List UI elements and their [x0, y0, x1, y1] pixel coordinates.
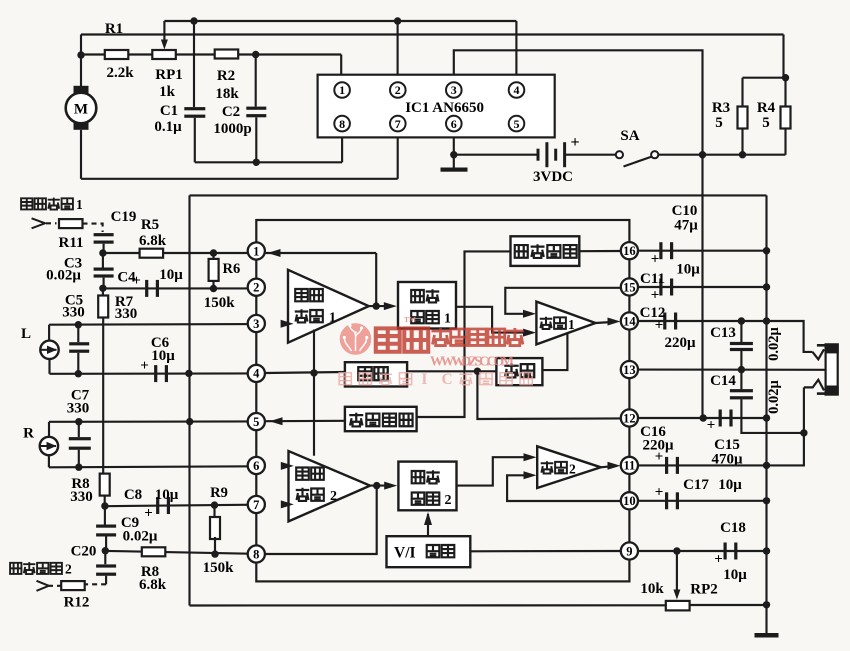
arrow driver2 upper input — [524, 453, 537, 461]
wire preamp2 feedback to pin8 — [265, 486, 377, 554]
wire pin1 drop — [340, 55, 342, 76]
wire pin4 to filter1 — [265, 372, 345, 373]
svg-text:M: M — [74, 102, 88, 118]
svg-text:R6: R6 — [223, 261, 241, 277]
wire pin12 row — [638, 417, 767, 419]
wire driver2 out — [601, 466, 612, 467]
label driver2 text — [541, 461, 576, 476]
watermark dianzishichangwang text — [432, 328, 524, 346]
label preamp1 text — [295, 289, 336, 326]
svg-text:6.8k: 6.8k — [139, 233, 167, 249]
wire refv to base voltage box — [417, 251, 511, 417]
svg-text:+: + — [655, 449, 664, 465]
junction C5 bottom — [75, 370, 82, 377]
svg-text:+: + — [570, 134, 579, 151]
wire to pin12 — [477, 371, 621, 419]
IC1 pin 4 circle — [509, 82, 525, 98]
IC functional block outline — [256, 220, 629, 581]
resistor R2 18k — [215, 50, 239, 59]
svg-text:5: 5 — [762, 115, 770, 131]
wire R7 top lead — [102, 288, 104, 296]
source R circle — [40, 437, 58, 455]
svg-text:C20: C20 — [71, 544, 97, 560]
svg-text:2: 2 — [253, 281, 259, 295]
wire jack lower drop — [803, 387, 805, 433]
junction C2 bottom — [253, 159, 260, 166]
watermark weiku text — [376, 328, 428, 351]
op-amp preamp1 (qianzhi fangda 1) — [288, 270, 369, 343]
junction C9/C20/R8b — [102, 547, 109, 554]
wire L bottom lead — [48, 359, 50, 374]
wire C3 top lead — [102, 253, 104, 268]
switch SA lever — [624, 157, 653, 167]
wire R6 top lead — [212, 253, 214, 259]
junction C3/C4/R7 — [99, 285, 106, 292]
wire C19 bottom lead — [103, 244, 105, 253]
svg-text:+: + — [714, 552, 723, 568]
IC1 pin 2 circle — [390, 82, 406, 98]
op-amp driver2 (qudong 2) — [537, 446, 601, 488]
junction rail pin11 — [763, 462, 770, 469]
capacitor C13 0.02u — [730, 342, 753, 351]
junction C10 out — [763, 247, 770, 254]
capacitor C4 10u — [145, 280, 159, 297]
node pin 9 — [621, 542, 638, 559]
node pin 15 — [621, 278, 638, 295]
battery 3VDC — [537, 142, 567, 167]
node pin 11 — [621, 457, 638, 474]
block base voltage (jizhun dianya) — [345, 407, 417, 431]
node pin 14 — [621, 312, 638, 329]
wire supply vertical x703 — [701, 155, 703, 418]
wire C14 bottom to jack lower — [741, 399, 804, 433]
capacitor C10 47u — [659, 242, 673, 259]
wire battery left — [454, 154, 537, 156]
node pin 13 — [621, 361, 638, 378]
svg-text:14: 14 — [623, 314, 636, 328]
svg-text:C18: C18 — [720, 520, 746, 536]
potentiometer RP2 body — [666, 601, 690, 611]
svg-text:5: 5 — [514, 117, 520, 131]
svg-text:+: + — [651, 288, 660, 304]
block V/I converter (V/I zhuanhuan) — [387, 536, 471, 567]
watermark quanqiu zuida IC caigou wangzhan — [339, 371, 532, 388]
ground (top section) — [441, 168, 468, 172]
wire V/I to volume control 2 — [427, 514, 429, 536]
source R arrow — [40, 442, 57, 450]
wire C13 bottom lead — [740, 351, 742, 370]
label volume control 1 text — [411, 289, 451, 326]
junction motor/R1 — [77, 51, 84, 58]
IC1 pin 7 circle — [390, 116, 406, 132]
potentiometer RP1 body — [152, 50, 176, 59]
arrow driver1 lower input — [523, 329, 536, 337]
svg-text:R11: R11 — [58, 235, 83, 251]
svg-text:I: I — [421, 371, 427, 388]
wire pin13 row to jack — [638, 369, 826, 371]
wire to pin1 — [265, 252, 376, 254]
wire R7-R8 column — [102, 318, 104, 477]
svg-text:1: 1 — [444, 312, 451, 327]
svg-text:10μ: 10μ — [155, 487, 179, 503]
svg-text:2: 2 — [330, 489, 337, 504]
junction C7 bottom — [75, 464, 82, 471]
switch SA contact right — [651, 151, 658, 158]
block volume control 1 (yinliang kongzhi 1) — [398, 282, 456, 329]
wire pin14 row — [638, 320, 767, 322]
label filter2 text — [504, 363, 534, 377]
label V/I converter text — [394, 545, 454, 562]
headphone jack frame tabs — [817, 345, 826, 393]
junction preamp1 out — [373, 302, 380, 309]
block filter1 (lvbo) — [345, 362, 407, 386]
arrow into pin1 — [268, 249, 281, 257]
wire C14 top lead — [740, 370, 742, 390]
wire R3 top to R4 top — [743, 77, 786, 79]
capacitor C17 10u — [665, 492, 679, 509]
svg-text:C11: C11 — [640, 271, 665, 287]
svg-text:4: 4 — [253, 367, 260, 381]
svg-text:2.2k: 2.2k — [106, 65, 134, 81]
junction ground loop/pin4 — [185, 370, 192, 377]
wire R4 bottom lead — [784, 128, 786, 154]
capacitor C9 0.02u — [96, 525, 116, 537]
headphone jack lower contact — [804, 380, 824, 391]
svg-text:RP2: RP2 — [690, 582, 718, 598]
junction tap/pin4 row — [310, 369, 317, 376]
junction rail pin10 — [763, 497, 770, 504]
resistor R5 6.8k — [140, 249, 164, 258]
node pin 3 — [248, 315, 265, 332]
svg-text:SA: SA — [620, 128, 639, 144]
wire dashed input1 to C19 — [83, 224, 103, 232]
arrow into preamp1 upper — [281, 320, 294, 328]
wire C2 bottom lead — [255, 117, 257, 162]
svg-text:18k: 18k — [215, 86, 239, 102]
svg-text:47μ: 47μ — [674, 218, 698, 234]
svg-text:2: 2 — [395, 83, 401, 97]
svg-text:3: 3 — [451, 83, 457, 97]
svg-text:C12: C12 — [640, 305, 666, 321]
label input signal 2 (shouru xinhao 2) — [10, 562, 72, 577]
block filter2 (lvbo) — [496, 358, 542, 385]
wire pin10 row — [638, 500, 767, 502]
wire RP2 wiper — [676, 551, 678, 594]
svg-text:8: 8 — [253, 547, 259, 561]
label input signal 1 (shouru xinhao 1) — [21, 197, 83, 212]
wire to motor — [80, 55, 82, 92]
wire V/I to pin9 — [470, 550, 621, 552]
svg-text:R3: R3 — [712, 100, 730, 116]
svg-text:+: + — [655, 485, 664, 501]
wire C7 top stub — [78, 422, 80, 437]
svg-text:V/I: V/I — [394, 545, 416, 562]
arrow into preamp2 upper — [281, 462, 294, 470]
svg-text:C1: C1 — [160, 103, 178, 119]
svg-text:6.8k: 6.8k — [139, 577, 167, 593]
svg-text:10μ: 10μ — [718, 477, 742, 493]
svg-text:1000p: 1000p — [213, 121, 251, 137]
resistor R8 6.8k — [142, 547, 166, 556]
wire pin2 drop — [397, 21, 399, 75]
label preamp2 text — [296, 468, 337, 505]
svg-text:C8: C8 — [124, 487, 142, 503]
arrow driver2 to pin11 — [608, 462, 621, 470]
arrow into pin5 — [270, 417, 283, 425]
wire pin4 row — [50, 372, 266, 375]
svg-text:R12: R12 — [64, 595, 90, 611]
junction rail pin12 — [763, 414, 770, 421]
wire pin11 row to jack lower — [767, 433, 804, 466]
junction C13 top — [738, 317, 745, 324]
svg-text:RP1: RP1 — [155, 67, 183, 83]
svg-text:10k: 10k — [640, 581, 664, 597]
svg-text:4: 4 — [514, 83, 520, 97]
wire motor bottom to pin7 — [81, 178, 398, 180]
junction R3 bottom — [739, 151, 746, 158]
block reference voltage (cankao dianya) — [511, 236, 580, 266]
node pin 12 — [621, 409, 638, 426]
wire vol2 to driver2 — [457, 457, 531, 485]
svg-text:12: 12 — [623, 411, 636, 425]
watermark logo circle — [340, 323, 372, 355]
wire C7 bottom stub — [78, 450, 80, 468]
op-amp driver1 (qudong 1) — [536, 302, 595, 345]
capacitor C8 10u — [156, 497, 170, 514]
label volume control 2 text — [412, 470, 452, 508]
wire main row — [81, 53, 341, 55]
junction supply/pin12 — [700, 414, 707, 421]
RP1 wiper arrow — [161, 40, 168, 50]
wire to ground — [453, 155, 455, 168]
svg-text:7: 7 — [253, 498, 259, 512]
wire top feedback line (RP1 wiper to pin4) — [164, 20, 516, 22]
wire C20 bottom stub — [105, 576, 107, 585]
wire pin10 to driver2 — [507, 475, 621, 501]
wire ground rail right — [765, 195, 767, 604]
capacitor C3 0.02u — [94, 268, 114, 278]
node pin 1 — [248, 242, 265, 259]
svg-text:11: 11 — [623, 459, 635, 473]
arrow into volume control 2 bottom — [424, 512, 432, 525]
svg-text:3VDC: 3VDC — [533, 169, 573, 185]
IC1 pin 8 circle — [334, 116, 350, 132]
wire C3 bottom lead — [103, 278, 105, 289]
node pin 5 — [248, 413, 265, 430]
resistor R12 — [61, 581, 84, 590]
arrow into volume control 2 — [384, 482, 397, 490]
svg-text:7: 7 — [395, 117, 401, 131]
svg-text:2: 2 — [65, 562, 72, 577]
wire R top lead — [48, 422, 50, 437]
svg-text:1k: 1k — [159, 84, 176, 100]
wire R bottom lead — [48, 455, 50, 467]
label base voltage text — [349, 413, 412, 427]
resistor R8 330 — [100, 474, 110, 496]
wire motor bottom — [80, 130, 82, 179]
capacitor C20 — [96, 564, 116, 575]
svg-text:150k: 150k — [204, 295, 236, 311]
svg-text:6: 6 — [253, 459, 259, 473]
junction C1 top — [190, 17, 197, 24]
junction filter row — [474, 368, 481, 375]
wire C1 bottom lead — [194, 118, 196, 163]
junction C11 out — [763, 283, 770, 290]
junction pin2 wire — [394, 17, 401, 24]
node pin 8 — [248, 545, 265, 562]
svg-text:1: 1 — [253, 244, 259, 258]
node pin 4 — [248, 365, 265, 382]
wire pin11 row — [638, 464, 767, 466]
IC IC1 AN6650 package — [318, 75, 555, 138]
junction R9 top — [211, 501, 218, 508]
svg-text:9: 9 — [626, 544, 632, 558]
wire pin8 row — [105, 551, 265, 554]
svg-text:R2: R2 — [217, 68, 235, 84]
wire motor top stub — [80, 35, 82, 56]
svg-text:C: C — [442, 371, 453, 388]
svg-text:0.02μ: 0.02μ — [123, 529, 158, 545]
wire outer loop left — [188, 195, 190, 605]
junction R6 top — [210, 249, 217, 256]
svg-text:330: 330 — [70, 489, 93, 505]
junction supply rail — [699, 151, 706, 158]
source L arrow — [41, 346, 58, 354]
wire pin15 row — [638, 286, 767, 288]
capacitor C12 220u — [663, 313, 677, 330]
capacitor C18 10u — [724, 543, 738, 560]
junction R9 bottom — [211, 550, 218, 557]
wire IC1 pin3 to supply — [454, 50, 703, 154]
junction R8/C8/C9 — [101, 502, 108, 509]
svg-text:R4: R4 — [757, 100, 776, 116]
svg-text:330: 330 — [67, 401, 90, 417]
ground (bottom right) — [755, 633, 779, 638]
wire R6 bottom lead — [212, 281, 214, 289]
wire outer loop top — [190, 194, 767, 196]
wire pin16 row — [638, 250, 767, 252]
input connector 2 — [37, 581, 49, 591]
svg-text:10: 10 — [623, 494, 636, 508]
RP2 wiper arrow — [673, 590, 680, 600]
resistor R4 5 — [781, 107, 791, 129]
resistor R9 150k — [210, 517, 220, 539]
wire R3 bottom lead — [741, 128, 743, 154]
svg-text:R9: R9 — [210, 485, 228, 501]
IC1 pin 5 circle — [509, 116, 525, 132]
capacitor C15 470u — [719, 410, 733, 427]
wire battery to switch — [566, 154, 616, 156]
resistor R11 — [59, 219, 83, 228]
wire C9 bottom stub — [105, 536, 107, 550]
wire pin7 riser — [397, 137, 399, 178]
node pin 2 — [248, 279, 265, 296]
wire preamp1 out — [369, 305, 390, 307]
capacitor C2 1000p — [246, 107, 266, 118]
junction C13/C14 — [738, 366, 745, 373]
IC1 pin 6 circle — [446, 116, 462, 132]
capacitor C11 10u — [659, 279, 673, 296]
node pin 6 — [248, 457, 265, 474]
resistor R3 5 — [738, 107, 748, 129]
svg-text:R1: R1 — [105, 21, 123, 37]
wire C5 bottom stub — [77, 353, 79, 374]
wire dashed input1 — [46, 222, 57, 224]
junction pin9/RP2 — [673, 547, 680, 554]
junction ground loop/pin5 — [186, 418, 193, 425]
wire C2 top lead — [255, 55, 257, 107]
wire drop to R4 top — [782, 35, 784, 78]
wire preamp tap vertical — [313, 330, 315, 456]
junction R4 top — [782, 74, 789, 81]
resistor R6 150k — [209, 259, 219, 281]
switch SA contact left — [616, 151, 623, 158]
label driver1 text — [540, 317, 575, 332]
wire pin5 row — [49, 420, 265, 423]
op-amp preamp2 (qianzhi fangda 2) — [289, 451, 371, 521]
svg-text:WWW.DZSC.COM: WWW.DZSC.COM — [430, 354, 514, 369]
wire driver1 out — [596, 322, 613, 323]
node pin 10 — [621, 492, 638, 509]
svg-text:C2: C2 — [222, 104, 240, 120]
svg-text:10μ: 10μ — [159, 267, 183, 283]
svg-text:13: 13 — [623, 363, 636, 377]
wire to jack upper contact — [767, 321, 813, 352]
arrow into volume control 1 — [384, 302, 397, 310]
svg-text:10μ: 10μ — [676, 262, 700, 278]
junction C19/R5 — [99, 249, 106, 256]
wire pin15 to driver1 — [505, 288, 621, 314]
wire R5 row to pin1 — [103, 252, 265, 254]
wire filter1 to filter2 — [407, 370, 496, 372]
svg-text:330: 330 — [115, 306, 138, 322]
wire pin7 row — [105, 505, 265, 507]
wire C13 top lead — [740, 321, 742, 342]
svg-text:C17: C17 — [683, 477, 709, 493]
source L circle — [40, 341, 58, 359]
junction C7 top — [75, 418, 82, 425]
arrow driver1 upper input — [523, 310, 536, 318]
wire dashed input2 — [84, 583, 106, 585]
wire second top line (motor to R4) — [81, 33, 784, 35]
svg-text:C19: C19 — [111, 209, 137, 225]
junction bottom rail/ground — [763, 601, 770, 608]
svg-text:16: 16 — [623, 244, 636, 258]
block volume control 2 (yinliang kongzhi 2) — [398, 462, 456, 511]
svg-text:C4: C4 — [117, 270, 136, 286]
wire L top lead — [48, 325, 50, 341]
svg-text:+: + — [144, 506, 153, 522]
junction rail pin9 — [763, 547, 770, 554]
svg-text:5: 5 — [715, 115, 723, 131]
wire driver1 to filter2 — [543, 333, 567, 370]
capacitor C5 330 — [69, 342, 89, 353]
svg-text:10μ: 10μ — [151, 348, 175, 364]
svg-text:C14: C14 — [710, 373, 736, 389]
svg-text:C13: C13 — [710, 325, 736, 341]
wire pin4 drop — [515, 21, 517, 75]
svg-text:0.02μ: 0.02μ — [46, 268, 81, 284]
svg-text:TM: TM — [404, 315, 416, 324]
wire R9 bottom lead — [214, 537, 216, 554]
svg-text:150k: 150k — [203, 560, 235, 576]
svg-text:15: 15 — [623, 280, 636, 294]
wire feedback up — [375, 253, 377, 306]
wire R3 top lead — [741, 78, 743, 107]
wire bottom rail left of RP2 — [190, 604, 666, 606]
wire R8 bottom lead — [104, 496, 106, 507]
IC1 pin 1 circle — [334, 82, 350, 98]
